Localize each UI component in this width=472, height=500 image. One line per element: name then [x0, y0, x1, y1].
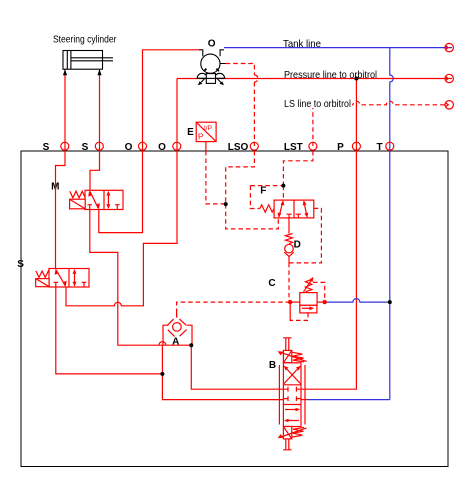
blue from C outlet to T vertical with hop over P line: [325, 299, 390, 302]
svg-text:LSO: LSO: [228, 142, 249, 153]
dashed: LST branch down from LS line to LST port: [312, 105, 314, 146]
junction E-LSO: [224, 202, 228, 206]
dashed: LS line to orbitrol with hops: [313, 101, 445, 104]
junction S wire to A left: [160, 372, 164, 376]
svg-text:S: S: [43, 142, 50, 153]
body: [283, 363, 301, 427]
junction C outlet: [323, 300, 327, 304]
label LS line net: [284, 98, 353, 110]
junction pressure x P: [354, 77, 358, 81]
valve F (2-position pilot valve): [260, 200, 314, 218]
E pressure transducer: [196, 122, 216, 151]
connector LS line: [445, 101, 453, 109]
wire: pressure line from O2 corner to right connector: [177, 78, 452, 80]
port T: [386, 142, 394, 150]
side rails: [278, 365, 280, 425]
svg-text:P: P: [337, 142, 344, 153]
pump O (steering unit): [197, 50, 226, 86]
relief valve C: [290, 277, 325, 313]
junction A bottom-right: [189, 343, 193, 347]
wire: B lower-right red stub: [301, 399, 308, 401]
wire: B upper-right port to P port vertical up to pressure line: [301, 79, 356, 390]
tank line blue vertical with hop over pressure line: [390, 48, 394, 400]
svg-text:B: B: [269, 360, 276, 371]
valve S (solenoid 3-way): [36, 269, 89, 288]
wire: solid stub below C junction: [289, 302, 291, 321]
port O1: [139, 142, 147, 150]
svg-text:Tank line: Tank line: [283, 38, 321, 50]
pilot check valve A: [163, 314, 192, 346]
connector pressure line: [445, 74, 453, 82]
wire: pump top-left to port O1 down to valve M bottom-right: [99, 50, 199, 233]
port P: [352, 142, 360, 150]
svg-text:C: C: [268, 278, 275, 289]
wire: port O2 down, to valve S bottom-right, with hop at x=117.8: [66, 79, 177, 306]
svg-text:I/P: I/P: [204, 125, 212, 132]
junction LST-F: [281, 184, 285, 188]
svg-text:S: S: [17, 259, 24, 270]
wire: A left line down to B lower-left port: [162, 345, 283, 399]
steering cylinder: [63, 51, 113, 76]
dashed: F right port down to D outlet: [289, 208, 321, 263]
tank line blue horizontal: [224, 47, 452, 49]
svg-text:Steering cylinder: Steering cylinder: [53, 34, 117, 46]
top spring: [293, 352, 305, 362]
dashed: pump LS to LSO port with hop over pressure line: [226, 64, 258, 147]
svg-text:F: F: [260, 185, 266, 196]
port S2: [95, 142, 103, 150]
dashed: C pilot from spring top to outlet junction: [313, 282, 325, 302]
wire: valve S bottom-left down to junction with A left line: [56, 287, 163, 374]
wire: valve M bottom-left down right and down to A bottom line, hop at 162.4: [90, 210, 192, 346]
top proportional arrow: [282, 353, 306, 362]
svg-text:Pressure line to orbitrol: Pressure line to orbitrol: [284, 69, 377, 81]
dashed: LSO port down into box to junction: [226, 151, 255, 204]
port S1: [61, 142, 69, 150]
port LST: [309, 142, 317, 150]
svg-text:P: P: [198, 133, 203, 142]
svg-text:A: A: [172, 336, 179, 347]
wire: A right line down to B upper-left port: [191, 345, 283, 389]
junction C inlet: [288, 300, 292, 304]
svg-text:T: T: [376, 142, 382, 153]
bottom spring: [293, 427, 305, 437]
port O2: [173, 142, 181, 150]
main manifold box: [21, 151, 448, 467]
svg-text:D: D: [294, 239, 301, 250]
box2 blocked ports: [283, 387, 301, 401]
wire: steering cylinder right to port S2 to valve M top: [90, 69, 100, 190]
svg-text:LST: LST: [284, 142, 303, 153]
dashed: junction down to F bottom-left port: [226, 204, 279, 229]
svg-text:O: O: [158, 142, 166, 153]
svg-text:O: O: [125, 142, 133, 153]
connector tank line: [445, 43, 453, 51]
dashed: LST port into box to F top: [283, 151, 313, 200]
svg-text:S: S: [82, 142, 89, 153]
bottom proportional arrow: [282, 428, 306, 437]
wire: solid stub above A pilot apex: [176, 313, 178, 318]
top tank T: [283, 338, 291, 351]
box3 arrows: [285, 409, 299, 411]
svg-text:LS line to orbitrol: LS line to orbitrol: [284, 98, 351, 110]
junction blue tank: [388, 300, 392, 304]
bottom solenoid: [283, 427, 291, 439]
dashed: C drain to main line: [290, 313, 308, 321]
port LSO: [250, 142, 258, 150]
check valve D with spring: [284, 218, 294, 263]
top solenoid: [283, 350, 291, 362]
dashed: F pilot loop: [250, 186, 283, 209]
proportional valve B: [278, 338, 307, 450]
wire: steering cylinder left to port S1 to valve S top: [56, 69, 66, 268]
svg-text:E: E: [187, 127, 194, 138]
dashed: E sensor line down to junction: [206, 151, 226, 204]
dashed: A pilot line to C junction: [177, 302, 291, 313]
svg-text:O: O: [208, 39, 216, 50]
blue from B lower-right to T vertical: [308, 399, 390, 401]
valve M (solenoid 3-way): [70, 190, 123, 209]
dashed: D outlet down to C junction: [288, 263, 290, 302]
bottom tank T: [283, 439, 291, 450]
port circles on manifold top edge: [61, 142, 394, 150]
box1 crossed arrows: [284, 366, 300, 384]
